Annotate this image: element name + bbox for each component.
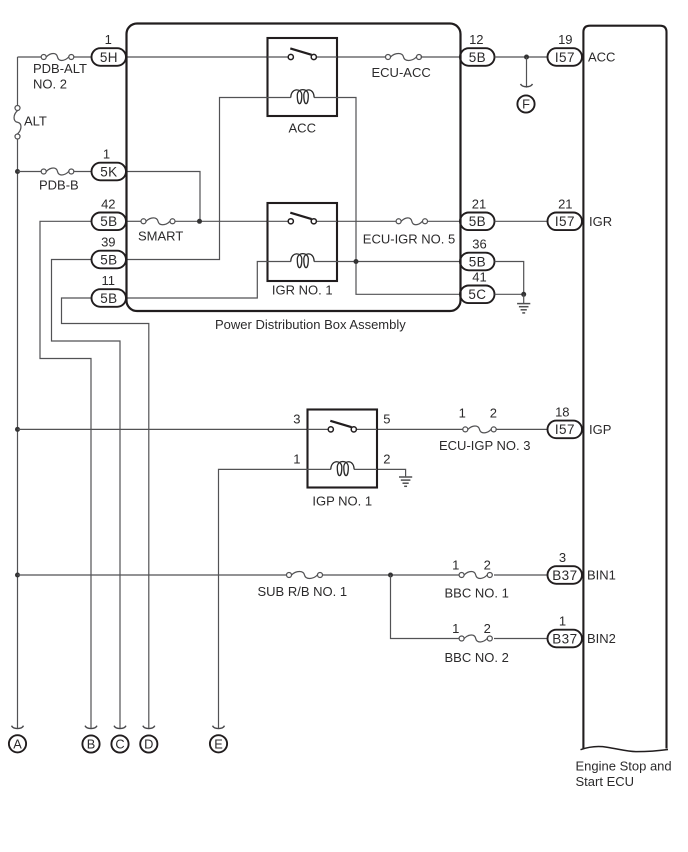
svg-text:1: 1 [103,147,110,162]
svg-text:5B: 5B [469,50,486,65]
svg-text:BIN2: BIN2 [587,631,616,646]
wire ACC relay to ECU-ACC fuse [337,56,387,58]
connector B37 pin3 [548,566,583,584]
svg-text:5B: 5B [100,252,117,267]
svg-text:ACC: ACC [289,121,316,136]
svg-text:ALT: ALT [24,113,47,128]
fuse ECU-IGP NO. 3 [463,426,496,433]
svg-text:21: 21 [472,196,486,211]
svg-text:5B: 5B [469,214,486,229]
wire 5B42 to SMART [126,220,142,222]
wire fuse to I57 IGP [496,428,548,430]
connector I57 pin19 [548,48,583,66]
fuse PDB-B [41,168,74,175]
svg-text:IGP NO. 1: IGP NO. 1 [312,494,372,509]
connector 5B pin36 [460,253,495,271]
wire PDB-ALT row right [74,56,92,58]
wire 5H to ACC relay [126,56,268,58]
wire PDB-B row right [74,171,92,173]
svg-text:F: F [522,97,530,112]
svg-text:11: 11 [102,273,116,288]
svg-text:NO. 2: NO. 2 [33,77,67,92]
svg-text:41: 41 [472,269,486,284]
connector 5H [92,48,127,66]
fuse ECU-IGR NO. 5 [396,218,427,225]
svg-text:I57: I57 [555,214,575,229]
wire 5B36 to ground drop [495,262,524,295]
connector A [9,735,26,752]
svg-text:PDB-B: PDB-B [39,178,79,193]
connector I57 pin21 [548,213,583,231]
wire A to IGP pin3 [18,428,308,430]
svg-text:D: D [144,737,153,752]
wire 5B42 to B drop [40,221,92,728]
svg-text:B37: B37 [552,631,577,646]
connector 5B pin39 [92,251,127,269]
svg-text:1: 1 [459,406,466,421]
svg-text:21: 21 [558,196,572,211]
svg-text:IGP: IGP [589,422,611,437]
wire BBC2 to B37 [494,638,548,640]
wire PDB-B row left [18,171,42,173]
junction A/SUB [15,573,20,578]
svg-text:BBC NO. 2: BBC NO. 2 [445,650,509,665]
wire BBC1 to B37 [494,574,548,576]
svg-text:36: 36 [472,237,486,252]
connector 5B pin42 [92,213,127,231]
svg-text:IGR: IGR [589,214,612,229]
svg-text:18: 18 [555,404,569,419]
connector 5B pin21 [460,213,495,231]
svg-text:5: 5 [383,412,390,427]
wire 5B39 to ACC coil [126,98,268,260]
svg-text:1: 1 [293,452,300,467]
svg-text:ECU-IGR NO. 5: ECU-IGR NO. 5 [363,231,455,246]
wire 5B21 to I57 [495,220,549,222]
connector B [82,735,99,752]
svg-text:Start ECU: Start ECU [576,774,635,789]
wire SUB fuse to BBC1 [323,574,461,576]
svg-text:SMART: SMART [138,228,183,243]
svg-text:1: 1 [559,614,566,629]
wire A vertical lower [17,139,19,728]
wire 5B39 to C drop [52,260,121,729]
svg-text:C: C [115,737,124,752]
torn bottom edge of ECU [581,747,669,752]
svg-text:5B: 5B [100,214,117,229]
svg-text:I57: I57 [555,50,575,65]
svg-text:3: 3 [559,550,566,565]
svg-text:BBC NO. 1: BBC NO. 1 [445,585,509,600]
junction ground [521,292,526,297]
wire A to SUB fuse [18,574,287,576]
wire 5B11 to IGR coil [126,262,268,299]
svg-text:3: 3 [293,412,300,427]
break to connector F [521,84,533,87]
svg-text:5C: 5C [468,287,486,302]
wire ECU-ACC fuse to 5B [421,56,461,58]
svg-text:42: 42 [101,196,115,211]
junction A/IGP [15,427,20,432]
connector E [210,735,227,752]
wire 5K feed to SMART row [126,172,200,222]
wire BIN2 branch [391,575,461,639]
connector 5C pin41 [460,286,495,304]
relay ACC [268,38,338,136]
wire ground stub [523,294,525,303]
svg-text:5B: 5B [469,254,486,269]
fuse SMART [141,218,175,225]
connector F [517,95,534,112]
wire SMART to IGR relay [175,220,268,222]
wire 5B11 to D drop [62,298,149,728]
svg-text:IGR NO. 1: IGR NO. 1 [272,282,333,297]
fuse ECU-ACC [386,54,422,61]
junction A/PDB-B [15,169,20,174]
svg-text:1: 1 [452,557,459,572]
junction 5K/SMART [197,219,202,224]
svg-text:I57: I57 [555,422,575,437]
svg-text:1: 1 [452,621,459,636]
wire IGP pin2 to ground [378,469,406,476]
svg-text:BIN1: BIN1 [587,568,616,583]
wire PDB-ALT row left [18,56,42,58]
connector 5B pin12 [460,48,495,66]
wire IGR relay to fuse [337,220,396,222]
svg-text:12: 12 [469,32,483,47]
svg-text:1: 1 [105,32,112,47]
relay IGP NO. 1 [308,410,378,509]
wire 5C41 to ground [495,293,524,295]
svg-text:ECU-IGP NO. 3: ECU-IGP NO. 3 [439,438,531,453]
box Engine Stop and Start ECU [583,26,666,749]
svg-text:E: E [214,736,223,751]
svg-text:19: 19 [558,32,572,47]
svg-text:B: B [87,737,96,752]
wire ACC coil right drop [337,98,460,295]
svg-text:2: 2 [484,557,491,572]
break to connector A [12,726,24,729]
connector I57 pin18 [548,421,583,439]
svg-text:5H: 5H [100,50,118,65]
connector B37 pin1 [548,630,583,648]
break to connector B [85,726,97,729]
break to connector C [114,726,126,729]
fuse PDB-ALT NO. 2 [41,54,74,61]
svg-text:2: 2 [490,406,497,421]
break to connector D [143,726,155,729]
ground of 5C41 [517,304,530,313]
wire F stub [526,57,528,88]
wire IGP pin1 to E drop [219,469,308,728]
svg-text:5B: 5B [100,291,117,306]
svg-text:39: 39 [101,235,115,250]
junction coilnet [354,259,359,264]
fuse BBC NO. 1 [459,572,492,579]
svg-text:Power Distribution Box Assembl: Power Distribution Box Assembly [215,317,406,332]
wire 5B to I57 ACC [495,56,549,58]
relay IGR NO. 1 [268,203,338,297]
svg-text:Engine Stop and: Engine Stop and [576,759,672,774]
wire IGR coil to 5B36 [337,261,460,263]
connector C [111,735,128,752]
junction BIN split [388,573,393,578]
connector 5B pin11 [92,289,127,307]
fuse SUB R/B NO. 1 [287,572,323,579]
wire A vertical upper [17,57,19,106]
break to connector E [213,726,225,729]
connector D [140,735,157,752]
junction F tap [524,55,529,60]
connector 5K [92,163,127,181]
svg-text:SUB R/B NO. 1: SUB R/B NO. 1 [258,584,348,599]
wire fuse to 5B21 [428,220,461,222]
fuse BBC NO. 2 [459,635,492,642]
ground of IGP relay [399,477,412,486]
svg-text:2: 2 [383,452,390,467]
svg-text:2: 2 [484,621,491,636]
box Power Distribution Box Assembly [127,24,461,312]
svg-text:PDB-ALT: PDB-ALT [33,61,87,76]
svg-text:A: A [13,736,22,751]
svg-text:B37: B37 [552,568,577,583]
wire IGP pin5 to fuse [378,428,463,430]
svg-text:ECU-ACC: ECU-ACC [372,65,431,80]
fusible link ALT [14,106,21,140]
svg-text:5K: 5K [100,164,117,179]
svg-text:ACC: ACC [588,50,615,65]
